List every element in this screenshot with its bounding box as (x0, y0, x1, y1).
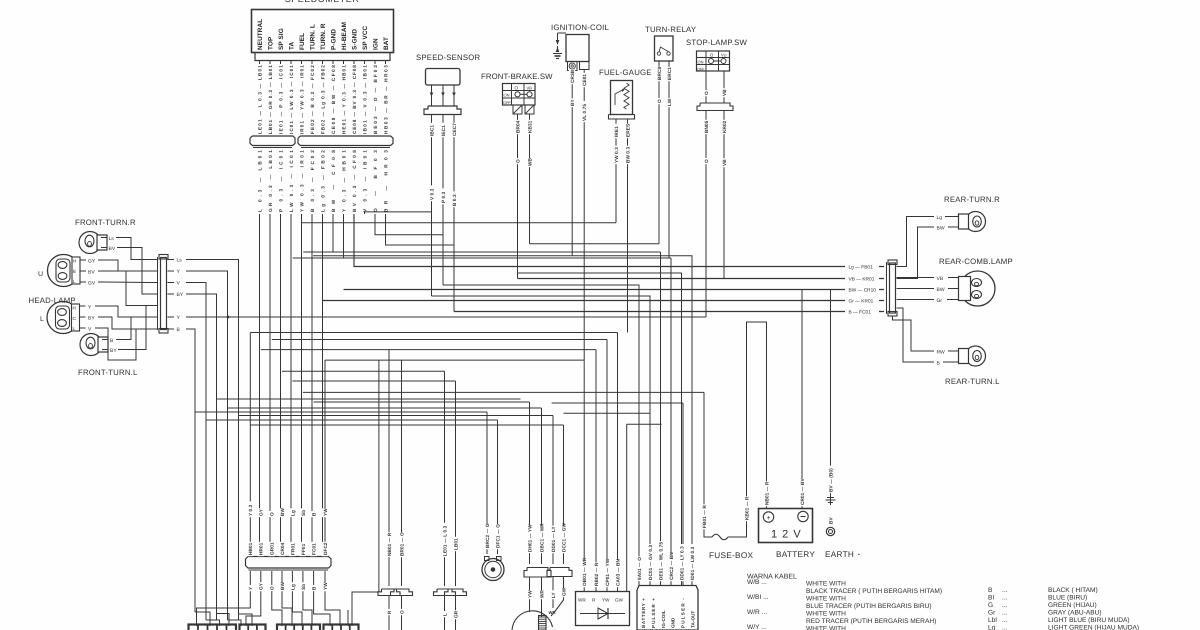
svg-text:DC01 — GV 0.3: DC01 — GV 0.3 (648, 545, 653, 580)
turn relay unit (655, 36, 674, 61)
bus B feed line (454, 311, 884, 313)
head lamp U unit (48, 255, 80, 287)
bottom connector bar (246, 557, 332, 569)
svg-text:WR: WR (549, 610, 556, 615)
svg-text:Ls: Ls (109, 236, 115, 242)
svg-text:IG-COIL: IG-COIL (661, 610, 666, 628)
vertical to switch pair A1 (529, 402, 531, 564)
svg-text:KR02: KR02 (722, 120, 727, 133)
svg-text:Lg: Lg (290, 584, 295, 590)
R/O pair wires below (389, 596, 402, 630)
vertical feed pin8 (324, 360, 326, 556)
svg-text:DFC2: DFC2 (323, 542, 328, 555)
stop lamp connector (697, 103, 733, 111)
sensor wire 1 continues down (431, 212, 433, 296)
svg-text:LB01: LB01 (453, 538, 458, 550)
svg-text:U: U (38, 271, 43, 278)
svg-text:Lg: Lg (290, 510, 295, 516)
svg-text:DFC1 — G: DFC1 — G (495, 524, 500, 548)
svg-text:YW: YW (527, 590, 532, 598)
left junction right-side rows (168, 258, 193, 334)
front turn L lamp (80, 334, 102, 356)
svg-text:REAR-TURN.R: REAR-TURN.R (944, 195, 1000, 204)
h-line y412 (195, 411, 487, 413)
svg-text:Y 0.3 — HB01: Y 0.3 — HB01 (341, 150, 346, 212)
svg-text:BV: BV (88, 270, 95, 276)
svg-text:WB: WB (527, 157, 532, 166)
fuse box wire (704, 533, 747, 540)
svg-text:O: O (270, 586, 275, 590)
svg-text:FRONT-BRAKE.SW: FRONT-BRAKE.SW (481, 72, 553, 81)
svg-text:CEC7: CEC7 (452, 123, 457, 136)
svg-text:Ls: Ls (177, 258, 183, 264)
svg-text:FB02 — Lg 0.3 — FB02: FB02 — Lg 0.3 — FB02 (320, 65, 325, 134)
vertical to R/O pair 2 (401, 360, 403, 586)
svg-text:IGN: IGN (373, 38, 380, 50)
svg-text:TURN. R: TURN. R (320, 23, 327, 50)
svg-text:BY: BY (177, 292, 184, 298)
vertical to R/O pair 1 (388, 350, 390, 586)
wire B row down x195 (192, 329, 195, 612)
svg-text:BRC8: BRC8 (657, 67, 662, 80)
svg-text:HEAD-LAMP: HEAD-LAMP (29, 296, 76, 305)
svg-text:O: O (704, 159, 709, 163)
svg-text:...: ... (1002, 617, 1008, 624)
svg-text:B: B (312, 586, 317, 590)
h-line y332 (250, 332, 617, 334)
wire labels layer (247, 67, 834, 620)
wire BY row down x217 (192, 294, 217, 620)
svg-text:DD01 — LY: DD01 — LY (551, 525, 556, 552)
h-line y349 (261, 349, 596, 351)
fuel gauge connector lip (609, 115, 635, 120)
fuel gauge unit (611, 81, 633, 115)
battery minus wire (801, 290, 803, 509)
bus to CDI DE01 (660, 252, 662, 585)
vertical to horn 2 (497, 420, 499, 554)
vertical to L/GR pair 2 (455, 381, 457, 586)
svg-text:G: G (988, 602, 993, 609)
svg-text:FC01: FC01 (312, 543, 317, 555)
speed sensor pins (430, 85, 456, 106)
vertical x626 to rectifier region (626, 424, 628, 591)
wire head L BY to junction (104, 317, 136, 329)
wire Ls row down x238 (192, 260, 239, 621)
svg-text:Lg — FB01: Lg — FB01 (849, 265, 874, 271)
svg-text:OFF: OFF (503, 101, 511, 105)
svg-text:CE08 — BV 0.3 — CF08: CE08 — BV 0.3 — CF08 (352, 65, 357, 134)
left junction connector (158, 255, 169, 334)
bus to CDI CRC2 (670, 258, 672, 585)
svg-text:PULSER +: PULSER + (651, 598, 656, 628)
svg-text:L: L (442, 613, 447, 616)
svg-text:O: O (515, 86, 519, 91)
svg-text:NEUTRAL: NEUTRAL (257, 19, 264, 50)
svg-text:IGNITION-COIL: IGNITION-COIL (551, 23, 610, 32)
vertical to switch pair B2 (563, 425, 565, 564)
speedo wires w1-w7 down to bottom connector (260, 214, 323, 557)
speedometer unit U1 (252, 10, 394, 53)
svg-text:L: L (40, 316, 44, 323)
svg-text:P 0.3: P 0.3 (441, 191, 446, 203)
svg-text:•: • (858, 552, 860, 558)
stop lamp wires lower (706, 111, 724, 318)
svg-text:B 0.3: B 0.3 (452, 194, 457, 206)
h-line y420 (206, 419, 498, 421)
svg-text:B: B (312, 512, 317, 516)
svg-text:LIGHT BLUE (BIRU MUDA): LIGHT BLUE (BIRU MUDA) (1048, 617, 1130, 624)
svg-text:OFF: OFF (697, 67, 705, 71)
svg-text:VB: VB (527, 86, 533, 91)
svg-text:BW: BW (280, 508, 285, 516)
bottom edge connector boxes group4 (324, 625, 359, 630)
spark plug symbol (553, 33, 566, 59)
svg-text:BW: BW (280, 582, 285, 590)
svg-text:BI: BI (988, 595, 994, 602)
svg-text:W/BI ...: W/BI ... (747, 594, 769, 601)
svg-text:HR01: HR01 (259, 542, 264, 555)
wire w13 to speed sensor (386, 214, 455, 245)
svg-text:1 2 V: 1 2 V (771, 529, 802, 541)
head lamp L wires (80, 305, 105, 333)
svg-text:Gr: Gr (937, 298, 943, 304)
svg-text:O: O (399, 610, 404, 614)
ignition coil unit (566, 35, 589, 62)
wire head U GY to junction (104, 260, 150, 271)
svg-text:Sb: Sb (301, 510, 306, 516)
svg-text:S-GND: S-GND (352, 29, 359, 50)
front brake switch (503, 84, 536, 106)
h-line y408 (228, 407, 542, 409)
svg-text:BV — (B0): BV — (B0) (828, 468, 833, 492)
svg-text:ERES: ERES (625, 124, 630, 137)
svg-text:W/B ...: W/B ... (747, 579, 767, 586)
svg-text:STOP-LAMP.SW: STOP-LAMP.SW (686, 38, 747, 47)
wire head L V to junction (101, 328, 150, 360)
svg-text:SPEEDOMETER: SPEEDOMETER (285, 0, 360, 4)
vertical x683 to CDI region (682, 403, 684, 586)
svg-text:CR04: CR04 (280, 542, 285, 555)
svg-text:...: ... (1002, 587, 1008, 594)
svg-text:IB01 — V 0.3 — IB01: IB01 — V 0.3 — IB01 (362, 65, 367, 134)
vertical to rectifier CP01 (606, 340, 608, 592)
head lamp U wires (80, 259, 104, 287)
bottom edge connector boxes group1 (189, 625, 237, 630)
svg-text:NB01 — R: NB01 — R (387, 532, 392, 556)
svg-text:HB03 — BR — HR03: HB03 — BR — HR03 (383, 65, 388, 134)
svg-text:GY: GY (88, 259, 96, 265)
front turn L wires (102, 338, 124, 354)
svg-text:PULSER -: PULSER - (681, 598, 686, 628)
bottom edge connector boxes group2 (240, 625, 266, 630)
wire front turn R Ls to junction (122, 238, 150, 260)
left junction wires left side stubs (150, 260, 158, 330)
bottom jog nest wires (195, 267, 354, 627)
svg-text:BY: BY (110, 348, 117, 354)
svg-text:Lg: Lg (937, 215, 943, 221)
svg-text:KB31: KB31 (527, 120, 532, 133)
svg-text:WHITE WITH: WHITE WITH (806, 581, 846, 588)
svg-text:Gr: Gr (988, 610, 996, 617)
svg-text:GY: GY (259, 582, 264, 590)
svg-text:ERC1: ERC1 (667, 67, 672, 80)
svg-text:WR: WR (578, 598, 586, 603)
speedometer harness wire labels upper (259, 61, 261, 64)
rear turn R wires (897, 215, 959, 279)
h-line y403 (552, 402, 683, 404)
svg-text:VB: VB (722, 159, 727, 166)
svg-text:GR: GR (453, 610, 458, 618)
svg-text:IRE1: IRE1 (614, 126, 619, 137)
turn relay wires down (659, 61, 669, 258)
svg-text:VU: VU (721, 53, 727, 58)
fuel gauge wires down (616, 119, 628, 333)
svg-text:O: O (270, 512, 275, 516)
L/GR pair connector 1 (434, 589, 456, 596)
sensor wire 3 continues down (453, 245, 455, 312)
svg-text:DBC1 — WR: DBC1 — WR (539, 523, 544, 552)
junction dot Y2 (227, 316, 230, 319)
svg-text:O: O (704, 91, 709, 95)
svg-text:BLUE TRACER (PUTIH BERGARIS BI: BLUE TRACER (PUTIH BERGARIS BIRU) (806, 603, 932, 610)
svg-text:EARTH: EARTH (825, 550, 854, 559)
svg-text:BATTERY: BATTERY (776, 550, 815, 559)
vertical x378 to bottom group4 (352, 360, 379, 626)
svg-text:B — FC01: B — FC01 (849, 310, 872, 316)
svg-text:V 0.3: V 0.3 (429, 188, 434, 200)
svg-text:FRONT-TURN.R: FRONT-TURN.R (75, 218, 136, 227)
svg-text:CP01 — YW: CP01 — YW (605, 558, 610, 586)
vertical to horn 1 (486, 412, 488, 554)
svg-text:VL 0.75: VL 0.75 (582, 104, 587, 121)
vertical to rectifier CA03 (617, 333, 619, 592)
harness connector bar right (298, 136, 393, 146)
svg-text:VB: VB (722, 89, 727, 96)
speed sensor connector (424, 106, 461, 115)
svg-text:BW: BW (937, 226, 945, 232)
svg-text:LIGHT GREEN (HIJAU MUDA): LIGHT GREEN (HIJAU MUDA) (1048, 625, 1139, 630)
svg-text:...: ... (1002, 595, 1008, 602)
svg-text:GY: GY (259, 508, 264, 516)
svg-text:BATTERY +: BATTERY + (641, 598, 646, 628)
wire Y row down x227 (192, 271, 228, 620)
vertical to rectifier OB01 (583, 360, 585, 591)
harness connector bar left (250, 136, 295, 146)
svg-text:HB01: HB01 (248, 542, 253, 555)
ignition coil wires down (572, 70, 584, 361)
svg-text:LE01 — L 0.3: LE01 — L 0.3 (442, 525, 447, 556)
speed sensor unit (426, 69, 461, 86)
svg-text:DH01 — YW: DH01 — YW (527, 524, 532, 552)
svg-text:ID01 — LW 0.3: ID01 — LW 0.3 (690, 546, 695, 580)
svg-text:FRONT-TURN.L: FRONT-TURN.L (78, 368, 138, 377)
wire w12 to speed sensor (375, 214, 443, 235)
svg-text:DD01 — LY 0.3: DD01 — LY 0.3 (679, 546, 684, 580)
svg-text:R: R (387, 610, 392, 614)
svg-text:BV: BV (828, 517, 833, 524)
stop lamp switch (697, 51, 731, 71)
bus y252 left tap (303, 251, 333, 253)
wire front turn R BV to junction (123, 248, 150, 295)
wire coil to CDI ID01 (313, 256, 692, 585)
svg-text:...: ... (1002, 602, 1008, 609)
wire w9 to bus y258 (344, 214, 672, 258)
svg-text:E: E (73, 269, 76, 274)
svg-text:9A01 — O: 9A01 — O (637, 557, 642, 580)
svg-text:FUEL: FUEL (299, 33, 306, 50)
wire front turn L B to junction (122, 317, 131, 340)
svg-text:REAR-TURN.L: REAR-TURN.L (945, 377, 1000, 386)
CDI unit (637, 586, 698, 630)
L/GR pair connector 2 (445, 589, 467, 596)
vertical to switch pair B1 (552, 416, 554, 565)
svg-text:FF01: FF01 (301, 543, 306, 555)
svg-text:H: H (73, 306, 76, 311)
svg-text:REAR-COMB.LAMP: REAR-COMB.LAMP (939, 257, 1013, 266)
svg-text:BLACK TRACER ( PUTIH BERGARIS: BLACK TRACER ( PUTIH BERGARIS HITAM) (806, 588, 942, 595)
wire head L Y to junction (101, 306, 150, 317)
svg-text:FB01 — R: FB01 — R (702, 505, 707, 528)
horn (482, 557, 504, 581)
h-line y424 (627, 423, 662, 425)
svg-text:LE01 — L 0.3 — LB01: LE01 — L 0.3 — LB01 (257, 65, 262, 134)
svg-text:...: ... (1002, 610, 1008, 617)
svg-text:GND: GND (671, 617, 676, 628)
h-line y415 (239, 415, 554, 417)
svg-text:SP SIG: SP SIG (278, 28, 285, 50)
svg-text:BW — CR10: BW — CR10 (849, 288, 877, 294)
svg-text:P-GND: P-GND (331, 29, 338, 50)
rear comb lamp (959, 271, 996, 306)
front brake switch wires down (518, 114, 530, 279)
svg-text:W/R ...: W/R ... (747, 609, 767, 616)
svg-text:Lbl: Lbl (988, 617, 997, 624)
vertical to rectifier RB02 (595, 350, 597, 592)
svg-text:DCC1 — GW: DCC1 — GW (561, 522, 566, 552)
h-line y339 (272, 339, 607, 341)
svg-text:TOP: TOP (268, 36, 275, 50)
svg-text:LW: LW (667, 98, 672, 106)
wire w8 to bus y252 (333, 214, 661, 252)
vertical to fuse FB01 (703, 392, 705, 533)
svg-text:SPEED-SENSOR: SPEED-SENSOR (416, 53, 481, 62)
svg-text:B: B (988, 587, 993, 594)
h-line y371 (282, 370, 445, 372)
svg-text:W/Y ...: W/Y ... (747, 624, 767, 630)
svg-text:ON: ON (698, 60, 704, 65)
bottom connector pigtails (250, 571, 325, 606)
rear feed labels (845, 263, 884, 315)
svg-text:DE01 — WL 0.75: DE01 — WL 0.75 (658, 542, 663, 580)
svg-text:BY: BY (88, 316, 95, 322)
h-line y425 (250, 424, 563, 426)
svg-text:VB — KR01: VB — KR01 (849, 277, 875, 283)
svg-text:L 0.3 — LB01: L 0.3 — LB01 (257, 150, 262, 212)
speed sensor wires down (432, 115, 455, 246)
svg-text:FE02 — B 0.3 — FC02: FE02 — B 0.3 — FC02 (310, 65, 315, 134)
svg-text:BRC2 — G: BRC2 — G (485, 523, 490, 548)
svg-text:TURN. L: TURN. L (310, 24, 317, 50)
svg-text:BW — CF08: BW — CF08 (331, 150, 336, 212)
svg-text:CE01: CE01 (582, 74, 587, 86)
svg-text:BR — HR03: BR — HR03 (383, 150, 388, 212)
svg-text:HE01 — Y 0.3 — HB01: HE01 — Y 0.3 — HB01 (341, 65, 346, 134)
svg-text:BR04: BR04 (515, 120, 520, 133)
svg-text:RW: RW (937, 350, 946, 356)
svg-text:BY: BY (570, 99, 575, 106)
svg-text:YW 0.3: YW 0.3 (614, 147, 619, 163)
svg-text:NB01 — R: NB01 — R (764, 481, 769, 505)
battery feed U-jog (747, 322, 767, 533)
svg-text:CR01 — BV: CR01 — BV (800, 478, 805, 505)
svg-text:IEC1: IEC1 (441, 125, 446, 136)
R/O pair connector 1 (378, 589, 400, 596)
h-line y413 (564, 412, 651, 414)
wire head U BV to junction (104, 271, 150, 306)
L/GR pair wires below (445, 596, 456, 630)
svg-text:YW: YW (323, 508, 328, 516)
svg-text:Sb: Sb (301, 584, 306, 590)
svg-text:VB: VB (937, 276, 944, 282)
svg-text:YW: YW (323, 582, 328, 590)
svg-text:Y 0.3: Y 0.3 (248, 504, 253, 516)
vertical to L/GR pair 1 (444, 371, 446, 586)
svg-text:GREEN (HIJAU): GREEN (HIJAU) (1048, 602, 1097, 609)
svg-text:BV: BV (109, 246, 116, 252)
front turn R wires (101, 236, 123, 252)
jog wire w10col to group4 (347, 610, 349, 626)
head lamp L unit (47, 302, 79, 334)
svg-text:GV: GV (88, 281, 96, 287)
svg-text:IR01 — YW 0.3 — IR01: IR01 — YW 0.3 — IR01 (299, 65, 304, 134)
wire w10 Lg feed to rear connector (354, 214, 884, 267)
svg-text:IC01 — LW 0.3 — IC01: IC01 — LW 0.3 — IC01 (289, 65, 294, 134)
svg-text:BW 0.3: BW 0.3 (625, 146, 630, 163)
svg-text:GW: GW (561, 587, 566, 596)
rectifier unit (576, 592, 630, 626)
svg-text:KB01 — R: KB01 — R (744, 496, 749, 520)
R/O pair connector 2 (391, 589, 413, 596)
svg-text:ON: ON (504, 93, 510, 98)
svg-text:HI-BEAM: HI-BEAM (341, 22, 348, 50)
svg-text:BR01 — O: BR01 — O (399, 532, 404, 556)
svg-text:O: O (657, 99, 662, 103)
svg-text:CR3B: CR3B (570, 69, 575, 83)
svg-text:RED TRACER (PUTIH BERGARIS MER: RED TRACER (PUTIH BERGARIS MERAH) (806, 618, 936, 625)
svg-text:RB02 — R: RB02 — R (594, 562, 599, 586)
front turn R lamp (79, 232, 101, 254)
ignition switch pair B wires (551, 577, 564, 617)
svg-text:CA03 — BN: CA03 — BN (615, 559, 620, 586)
svg-text:H: H (73, 259, 76, 264)
svg-text:WHITE WITH: WHITE WITH (806, 596, 846, 603)
wire front turn L BY to junction (124, 306, 146, 350)
speedometer connector lip (255, 53, 390, 61)
svg-text:GW: GW (615, 598, 624, 603)
svg-text:BN05: BN05 (704, 120, 709, 133)
wire Y2 long row (192, 316, 706, 318)
bottom edge connector boxes group3 (277, 625, 320, 630)
wire w11 to speed sensor (365, 212, 432, 214)
wire head U GV to junction (104, 281, 150, 284)
svg-text:FR01: FR01 (290, 543, 295, 555)
bus y258 left tap (293, 257, 344, 259)
svg-text:BW: BW (937, 287, 945, 293)
rear junction connector (887, 260, 898, 316)
svg-text:GR01: GR01 (270, 542, 275, 555)
svg-text:OB01 — WR: OB01 — WR (582, 557, 587, 586)
svg-text:CE08 — BW — CF08: CE08 — BW — CF08 (331, 65, 336, 134)
